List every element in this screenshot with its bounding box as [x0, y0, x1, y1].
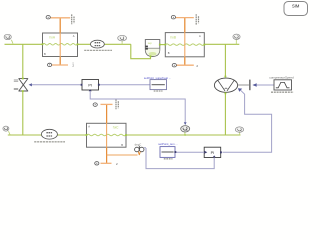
svg-text:B: B	[44, 52, 46, 56]
svg-text:SIM: SIM	[292, 4, 300, 9]
controller PI1	[81, 80, 100, 92]
wire: HX1 refrigerant coil	[43, 44, 78, 46]
temperature sensor degC on water outlet	[135, 143, 146, 156]
shaft flange tick	[249, 80, 250, 91]
wire: HX3 water outlet branch to temperature sensor	[107, 154, 138, 156]
wire: temperature sensor to PI2 feedback	[146, 148, 214, 169]
wire: top refrigerant line left segment	[5, 43, 43, 45]
svg-text:hxA: hxA	[50, 36, 56, 40]
boundary: HX2 water inlet	[171, 14, 198, 25]
wire: bottom refrigerant line	[8, 134, 87, 136]
svg-text:compressorSpeed: compressorSpeed	[269, 76, 294, 80]
svg-text:B: B	[168, 51, 170, 55]
connector dots (green port markers)	[22, 43, 226, 136]
wire: setpoint1 to PI1 input	[100, 84, 150, 86]
wire: setpoint2 to PI2 input	[175, 151, 204, 153]
wire: top refrigerant line mid segment	[78, 43, 131, 45]
boundary: HX3 water outlet	[95, 162, 118, 166]
heat exchanger HX2 body	[165, 33, 204, 57]
signal source setPoint temperature	[158, 142, 178, 159]
gauge sensor B (x=122 on top line)	[118, 35, 127, 44]
gauge sensor C (suction corner stub)	[233, 34, 240, 44]
wire: compressor discharge drop	[224, 93, 226, 135]
state sensor S2 (pressure/temperature ellipse, bottom line)	[34, 129, 65, 142]
signal arrow into superheat sensor	[184, 122, 187, 125]
simulation setup SIM block	[284, 2, 308, 16]
gauge sensor D (bottom-left line end)	[3, 126, 10, 135]
wire: HX3 secondary vertical	[106, 104, 108, 163]
state sensor S1 (pressure/temperature ellipse, top line)	[84, 40, 112, 50]
signal arrow into shaft from speed source	[252, 83, 256, 87]
boundary: HX1 water inlet	[46, 14, 74, 24]
svg-text:A: A	[73, 34, 75, 38]
wire: PI2 output to compressor	[223, 90, 272, 152]
svg-text:setPoint_tem ...: setPoint_tem ...	[158, 142, 178, 146]
wire: superheat sensor to PI1 feedback	[90, 91, 185, 122]
signal source setPoint superheat	[144, 76, 171, 91]
svg-text:B: B	[121, 143, 123, 147]
gauge sensor A (top-left line end)	[4, 34, 13, 43]
boundary: HX1 water outlet	[48, 62, 75, 68]
wire: HX2 refrigerant coil	[165, 44, 204, 46]
heat exchanger HX1 body	[43, 33, 78, 57]
receiver / separator vessel	[145, 40, 160, 57]
wire: PI1 output to valve	[32, 84, 81, 86]
svg-text:A: A	[88, 125, 90, 129]
boundary: HX2 water outlet	[172, 63, 198, 67]
wire: speed source to shaft	[257, 84, 274, 86]
svg-text:hxB: hxB	[171, 35, 177, 39]
wire: HX2 secondary vertical	[184, 18, 186, 66]
wire: compressor suction riser	[224, 44, 226, 76]
compressor U1	[214, 78, 237, 92]
wire: HX2 to compressor corner	[204, 43, 239, 45]
wire: valve bottom to suction line	[22, 91, 24, 135]
signal source compressorSpeed	[269, 76, 294, 93]
superheat sensor on suction line	[181, 126, 190, 135]
svg-text:sep: sep	[148, 42, 153, 45]
gauge sensor E (discharge corner stub)	[235, 127, 243, 135]
expansion valve V1	[14, 79, 32, 91]
wire: receiver to HX2	[160, 44, 166, 46]
svg-text:A: A	[199, 34, 201, 38]
wire: receiver feed corner	[131, 44, 151, 58]
heat exchanger HX3 body	[87, 123, 127, 147]
wire: valve top branch	[22, 44, 24, 78]
svg-text:PI: PI	[88, 84, 92, 88]
signal arrow into compressor control port	[238, 88, 242, 92]
svg-text:degC: degC	[135, 143, 142, 147]
valve signal input arrow	[29, 83, 32, 86]
compressor shaft	[238, 84, 249, 86]
controller PI2	[204, 147, 222, 157]
svg-text:hxC: hxC	[113, 126, 119, 130]
wire: HX3 refrigerant coil	[87, 134, 126, 136]
wire: bottom refrigerant line right	[126, 134, 241, 136]
boundary: HX3 water inlet	[93, 99, 118, 109]
wire: HX1 secondary (water) vertical	[59, 18, 61, 65]
svg-text:PI: PI	[211, 151, 215, 155]
